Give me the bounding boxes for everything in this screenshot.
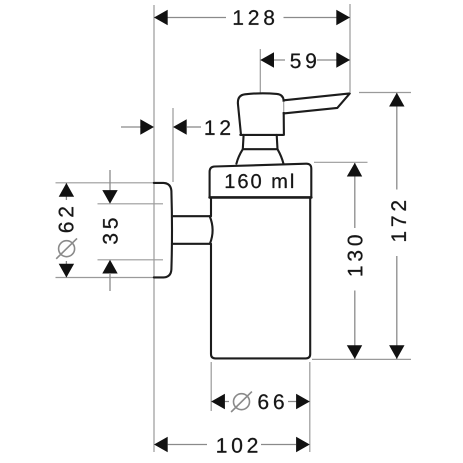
- dim 59 left arrow: [260, 52, 274, 67]
- dim dia62 line: [65, 183, 67, 200]
- dim 35 top arrow: [102, 190, 117, 204]
- pump head bottom line: [240, 134, 283, 136]
- dim dia66 extension line right: [309, 362, 311, 452]
- dim 128 text: [234, 10, 274, 25]
- dia66 diameter symbol: [234, 394, 250, 410]
- dia62 diameter symbol: [59, 241, 75, 257]
- pump head: [238, 93, 284, 135]
- dim 102 line: [168, 444, 207, 446]
- label 160 ml: [226, 174, 293, 189]
- dim 12 left arrow: [140, 119, 154, 134]
- dim dia62 text: [59, 207, 74, 232]
- wall line: [153, 5, 155, 452]
- dim dia62 extension line bottom: [56, 277, 168, 279]
- dim dia62 bottom arrow: [59, 264, 74, 278]
- mounting arm bottom edge: [172, 243, 210, 245]
- dim dia62 extension line top: [56, 182, 168, 184]
- dim 130 top arrow: [347, 163, 362, 177]
- dim 172 line: [396, 93, 398, 190]
- dim 12 line right tail: [187, 126, 201, 128]
- head edge lightening behind spout: [282, 102, 285, 112]
- dim 172 bottom arrow: [389, 345, 404, 359]
- dim 128 right arrow: [336, 10, 350, 25]
- dim 35 bottom tail: [109, 273, 111, 291]
- dim 35 extension line top: [98, 203, 164, 205]
- dim 102 right arrow: [296, 437, 310, 452]
- dim dia66 line: [211, 401, 229, 403]
- dim 59 extension line left (pump head): [259, 49, 261, 93]
- wall plate: [154, 183, 172, 278]
- neck sides: [243, 135, 278, 149]
- dim 35 top tail: [109, 170, 111, 191]
- dim 128 extension line right (spout tip): [349, 4, 351, 92]
- dim 130 line: [354, 163, 356, 228]
- collar flare: [236, 149, 283, 164]
- spout: [284, 93, 350, 113]
- dim 102 text: [217, 438, 257, 453]
- dim 172 top arrow: [389, 93, 404, 107]
- mounting arm top edge: [172, 215, 210, 217]
- body cylinder: [211, 198, 310, 359]
- dim dia62 top arrow: [59, 183, 74, 197]
- dim 12 right arrow: [173, 119, 187, 134]
- dim dia66 right arrow: [296, 394, 310, 409]
- dim 172 extension line top: [359, 92, 411, 94]
- dim 130 text: [348, 235, 363, 275]
- dim dia66 left arrow: [211, 394, 225, 409]
- dim 35 bottom arrow: [102, 260, 117, 274]
- dim 59 line: [260, 59, 285, 61]
- dim 12 text: [206, 120, 231, 135]
- dim 102 left arrow: [154, 437, 168, 452]
- dim dia66 extension line left: [210, 362, 212, 411]
- dim 59 right arrow: [336, 52, 350, 67]
- dim 35 extension line bottom: [98, 259, 164, 261]
- dim 12 line left tail: [121, 126, 141, 128]
- arm end curve on body: [210, 216, 213, 244]
- lid bottom line: [210, 196, 312, 199]
- extension line bottom shared: [312, 358, 411, 360]
- dim 59 text: [291, 53, 316, 68]
- dim 130 bottom arrow: [347, 345, 362, 359]
- dim 35 text: [103, 218, 118, 244]
- dim dia66 text: [259, 394, 284, 409]
- dim 12 extension line (plate front): [172, 108, 174, 182]
- dim 128 left arrow: [154, 10, 168, 25]
- dim 130 extension line top: [314, 161, 368, 163]
- dim 172 text: [391, 201, 406, 241]
- dim 128 line: [154, 17, 226, 19]
- lid band: [210, 164, 312, 198]
